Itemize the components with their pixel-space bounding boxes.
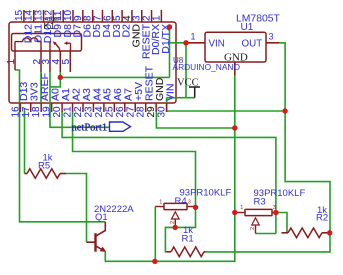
svg-text:18: 18	[31, 106, 42, 118]
svg-text:23: 23	[83, 106, 94, 118]
svg-text:24: 24	[94, 106, 105, 118]
svg-text:R4: R4	[175, 196, 187, 207]
svg-text:VIN: VIN	[164, 83, 176, 101]
svg-text:R3: R3	[254, 197, 266, 208]
svg-text:OUT: OUT	[242, 39, 263, 50]
svg-text:Q1: Q1	[95, 212, 108, 223]
svg-text:28: 28	[136, 106, 147, 118]
svg-text:22: 22	[73, 106, 84, 118]
svg-text:21: 21	[63, 106, 74, 118]
svg-text:1: 1	[159, 200, 162, 206]
svg-text:K1: K1	[44, 21, 56, 32]
svg-text:30: 30	[157, 106, 168, 118]
svg-text:U1: U1	[241, 22, 254, 33]
svg-text:20: 20	[52, 106, 63, 118]
svg-text:ARDUINO_NANO: ARDUINO_NANO	[173, 62, 241, 72]
svg-text:R5: R5	[38, 161, 50, 172]
svg-text:26: 26	[115, 106, 126, 118]
svg-text:1: 1	[240, 205, 243, 211]
svg-text:5: 5	[61, 59, 72, 65]
svg-text:GND: GND	[224, 52, 248, 64]
svg-text:3: 3	[269, 32, 274, 42]
svg-text:93PR10KLF: 93PR10KLF	[180, 188, 232, 199]
svg-text:16: 16	[10, 106, 21, 118]
svg-text:netPort1: netPort1	[72, 123, 108, 134]
svg-text:1: 1	[151, 15, 162, 21]
svg-text:R2: R2	[316, 213, 328, 224]
svg-text:3: 3	[188, 200, 191, 206]
svg-text:27: 27	[125, 106, 136, 118]
svg-text:2: 2	[170, 221, 176, 224]
svg-text:2: 2	[250, 227, 256, 230]
svg-text:R1: R1	[182, 234, 194, 245]
svg-text:VIN: VIN	[209, 39, 225, 50]
svg-text:VCC: VCC	[177, 78, 199, 89]
svg-text:17: 17	[21, 106, 32, 118]
svg-text:25: 25	[104, 106, 115, 118]
svg-text:19: 19	[42, 106, 53, 118]
svg-text:1: 1	[191, 32, 196, 42]
svg-text:29: 29	[146, 106, 157, 118]
svg-text:1: 1	[6, 59, 17, 65]
